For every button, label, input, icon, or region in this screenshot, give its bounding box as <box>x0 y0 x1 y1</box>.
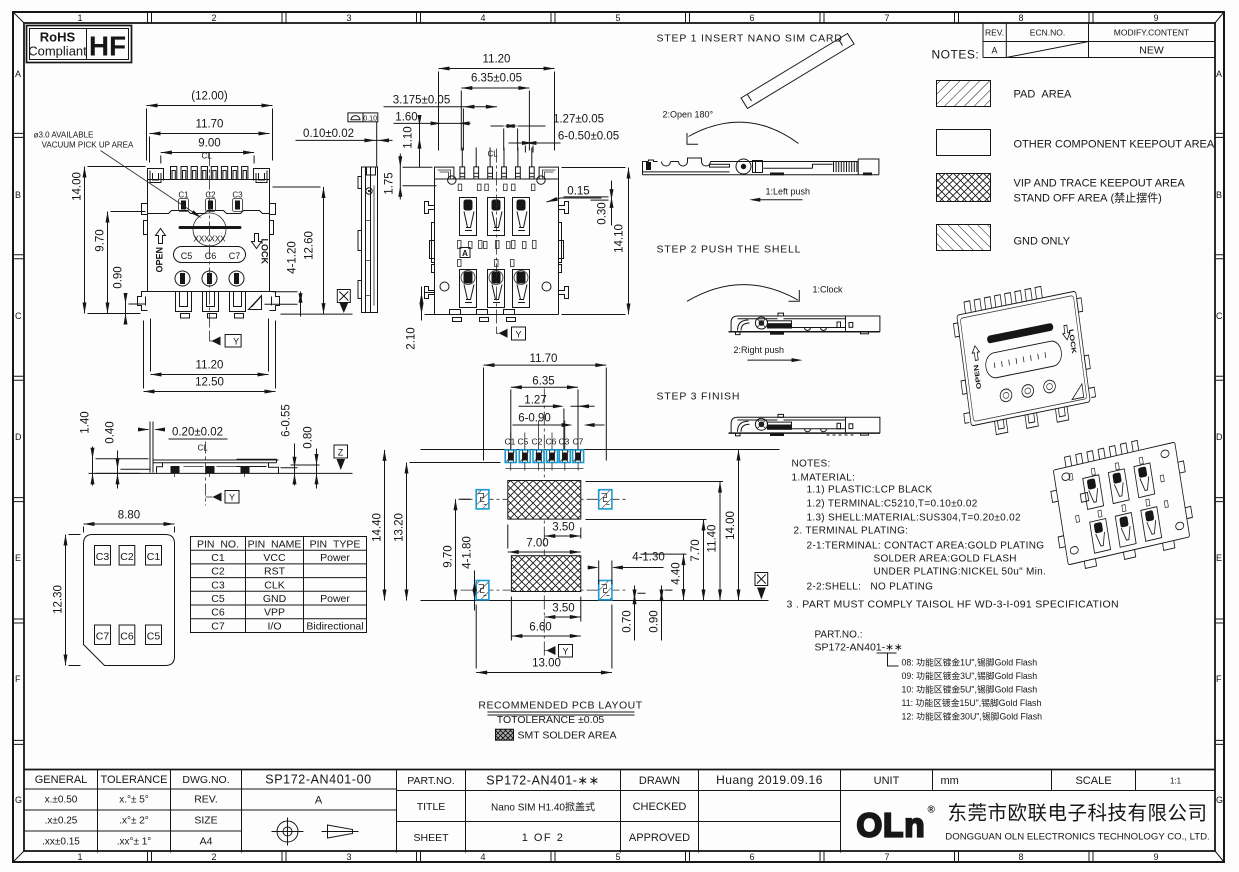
svg-text:.x°± 2°: .x°± 2° <box>119 816 149 827</box>
dim 4-1.20 <box>265 241 303 316</box>
svg-text:14.00: 14.00 <box>725 511 737 540</box>
svg-text:C6: C6 <box>546 437 557 447</box>
dim 6.60 <box>511 597 580 641</box>
corner holes <box>448 176 456 184</box>
svg-text:DWG.NO.: DWG.NO. <box>182 774 229 786</box>
dim 1.60 <box>394 112 471 126</box>
svg-text:4-1.80: 4-1.80 <box>462 536 474 569</box>
svg-text:1 OF 2: 1 OF 2 <box>522 832 565 844</box>
svg-text:C2: C2 <box>120 551 134 563</box>
dim 11.20 <box>151 319 269 377</box>
svg-text:4-1.30: 4-1.30 <box>632 552 665 564</box>
closed connector side view (step2) <box>729 313 880 334</box>
svg-text:A4: A4 <box>200 836 213 848</box>
part number options <box>815 630 1043 722</box>
svg-text:UNDER PLATING:NICKEL 50u" Mi: UNDER PLATING:NICKEL 50u" Min. <box>874 567 1047 578</box>
revision table <box>983 24 1216 58</box>
svg-text:C: C <box>15 311 22 321</box>
svg-text:C5: C5 <box>211 593 225 605</box>
right bottom rail <box>270 292 280 311</box>
shell stiffener bar <box>179 226 242 229</box>
svg-text:2-1:TERMINAL: CONTACT AREA:GO: 2-1:TERMINAL: CONTACT AREA:GOLD PLATING <box>807 541 1045 552</box>
dim 4-1.30 (pcb) <box>588 552 665 585</box>
svg-text:®: ® <box>928 805 936 816</box>
svg-text:DONGGUAN OLN ELECTRONICS TECHN: DONGGUAN OLN ELECTRONICS TECHNOLOGY CO.,… <box>945 832 1209 843</box>
svg-text:0.40: 0.40 <box>105 421 117 443</box>
card pad C6 <box>119 625 135 645</box>
svg-text:Y: Y <box>229 493 235 503</box>
svg-text:SP172-AN401-∗∗: SP172-AN401-∗∗ <box>815 642 903 654</box>
svg-text:C2: C2 <box>532 437 543 447</box>
svg-text:C1: C1 <box>505 437 516 447</box>
svg-text:东莞市欧联电子科技有限公司: 东莞市欧联电子科技有限公司 <box>947 803 1207 825</box>
svg-text:1.27: 1.27 <box>524 395 546 407</box>
svg-text:Nano SIM H1.40掀盖式: Nano SIM H1.40掀盖式 <box>491 801 595 814</box>
lower contact block 3 <box>513 270 530 308</box>
svg-text:09: 功能区镀金3U",锡脚Gold Flash: 09: 功能区镀金3U",锡脚Gold Flash <box>902 670 1038 681</box>
svg-text:6.35: 6.35 <box>532 376 554 388</box>
dim 8.80 <box>84 510 175 533</box>
svg-text:OPEN: OPEN <box>155 247 165 273</box>
gnd pad upper-right (blue) <box>599 490 612 509</box>
card pad C5 <box>146 625 162 645</box>
oval window C5 C6 C7 <box>174 247 246 263</box>
vacuum pickup note <box>34 131 203 220</box>
dim 6-0.55 <box>281 404 298 485</box>
dim 1.75 (pin offset) <box>384 154 437 200</box>
profile left bumps <box>358 177 362 299</box>
svg-text:2: 2 <box>211 852 216 862</box>
dim 0.30 <box>564 181 614 226</box>
lower contact block 2 <box>488 270 505 308</box>
svg-text:VPP: VPP <box>264 607 285 619</box>
svg-text:Y: Y <box>562 647 568 657</box>
svg-text:A: A <box>315 795 323 807</box>
svg-text:ø3.0 AVAILABLE: ø3.0 AVAILABLE <box>34 131 94 140</box>
svg-text:2.10: 2.10 <box>406 327 418 349</box>
dim 9.70 <box>95 212 146 314</box>
svg-text:7.00: 7.00 <box>526 538 548 550</box>
lower contact block 1 <box>460 270 477 308</box>
svg-text:HF: HF <box>89 31 126 62</box>
svg-text:8: 8 <box>1018 13 1023 23</box>
profile top notch <box>367 167 376 175</box>
svg-text:C3: C3 <box>96 551 110 563</box>
svg-text:REV.: REV. <box>985 28 1004 38</box>
svg-text:3.50: 3.50 <box>552 603 574 615</box>
corner triangle vent <box>249 296 262 310</box>
dim 0.40 <box>105 421 151 488</box>
shell wall (0.20 thk) <box>150 422 153 473</box>
gnd pad upper-left (blue) <box>476 490 489 509</box>
dim 12.30 <box>53 535 81 666</box>
svg-text:7: 7 <box>884 13 889 23</box>
dim 0.15 <box>546 186 602 204</box>
flatness control frame <box>348 113 378 122</box>
svg-text:C6: C6 <box>205 251 217 261</box>
svg-text:11.70: 11.70 <box>530 353 558 365</box>
upper contact block 2 <box>488 198 505 236</box>
svg-text:Power: Power <box>320 552 350 564</box>
datum Y (bottom view) <box>497 327 526 341</box>
svg-text:11.40: 11.40 <box>707 525 719 553</box>
dim 6.35 (pcb) <box>511 376 578 450</box>
svg-text:GND ONLY: GND ONLY <box>1014 236 1071 248</box>
projection symbol <box>272 818 359 846</box>
svg-text:C1: C1 <box>147 551 161 563</box>
svg-text:VIP AND TRACE KEEPOUT AREA: VIP AND TRACE KEEPOUT AREA <box>1014 178 1186 190</box>
svg-text:x.±0.50: x.±0.50 <box>45 795 78 806</box>
dim 9.00 <box>161 138 254 164</box>
lower contact circles <box>175 271 244 286</box>
datum Z <box>331 445 353 473</box>
svg-text:PART.NO.: PART.NO. <box>407 775 454 787</box>
svg-text:ECN.NO.: ECN.NO. <box>1030 28 1065 38</box>
profile contacts <box>171 466 250 473</box>
svg-text:14.40: 14.40 <box>372 513 384 542</box>
clock arc arrow (step2) <box>687 285 799 302</box>
svg-text:MODIFY.CONTENT: MODIFY.CONTENT <box>1114 28 1189 38</box>
dim 7.70 (pcb) <box>586 520 707 601</box>
svg-text:0.15: 0.15 <box>567 186 589 198</box>
svg-text:4: 4 <box>480 13 485 23</box>
svg-text:SP172-AN401-∗∗: SP172-AN401-∗∗ <box>486 774 599 788</box>
datum A box <box>460 248 470 258</box>
svg-text:CL: CL <box>198 444 209 453</box>
svg-text:x.°± 5°: x.°± 5° <box>119 795 149 806</box>
dim 0.80 <box>291 426 320 488</box>
svg-text:11: 功能区镀金15U",锡脚Gold Flash: 11: 功能区镀金15U",锡脚Gold Flash <box>902 697 1042 708</box>
card pad C7 <box>95 625 111 645</box>
top solder pins <box>460 148 534 180</box>
svg-text:C: C <box>1216 311 1223 321</box>
svg-text:F: F <box>1216 674 1222 684</box>
body outline <box>435 167 559 314</box>
svg-text:C3: C3 <box>211 580 225 592</box>
svg-text:A: A <box>991 46 997 56</box>
svg-text:08: 功能区镀金1U",锡脚Gold Flash: 08: 功能区镀金1U",锡脚Gold Flash <box>902 657 1038 668</box>
svg-text:Y: Y <box>233 337 239 347</box>
dim 11.70 (pcb) <box>484 353 607 461</box>
svg-text:I/O: I/O <box>267 621 281 633</box>
svg-text:1.3) SHELL:MATERIAL:SUS304,T=: 1.3) SHELL:MATERIAL:SUS304,T=0.20±0.02 <box>807 513 1021 524</box>
datum X (pcb) <box>755 573 768 600</box>
svg-text:SOLDER AREA:GOLD FLASH: SOLDER AREA:GOLD FLASH <box>874 554 1017 565</box>
dim 0.20±0.02 <box>138 427 228 440</box>
gnd pad lower-left (blue) <box>476 581 489 600</box>
svg-text:SCALE: SCALE <box>1075 775 1111 787</box>
svg-text:0.10: 0.10 <box>363 113 377 122</box>
svg-text:2. TERMINAL PLATING:: 2. TERMINAL PLATING: <box>794 526 909 537</box>
svg-text:6: 6 <box>749 852 754 862</box>
card pad C1 <box>146 546 162 566</box>
right side tab <box>270 204 276 235</box>
svg-text:12.60: 12.60 <box>304 231 316 260</box>
svg-text:G: G <box>15 795 22 805</box>
svg-text:12.30: 12.30 <box>53 585 65 614</box>
svg-text:TOLERANCE: TOLERANCE <box>100 774 167 786</box>
dim 0.70 (pcb) <box>622 586 646 641</box>
card pad C2 <box>119 546 135 566</box>
bottom pads <box>450 310 516 322</box>
svg-text:C5: C5 <box>147 631 161 643</box>
dim 14.40 (pcb) <box>372 450 387 601</box>
svg-text:9.00: 9.00 <box>198 138 220 150</box>
svg-text:4-1.20: 4-1.20 <box>287 241 299 274</box>
svg-text:PIN NAME: PIN NAME <box>248 539 302 551</box>
svg-text:VACUUM PICK UP AREA: VACUUM PICK UP AREA <box>42 141 134 150</box>
svg-text:7: 7 <box>884 852 889 862</box>
svg-text:SIZE: SIZE <box>194 815 217 827</box>
dim 14.00 <box>72 167 146 314</box>
svg-text:SHEET: SHEET <box>413 832 449 844</box>
svg-text:E: E <box>1216 553 1222 563</box>
svg-text:E: E <box>15 553 21 563</box>
svg-text:0.80: 0.80 <box>303 426 315 448</box>
dim 13.00 <box>476 605 612 675</box>
svg-text:2-2:SHELL: NO PLATING: 2-2:SHELL: NO PLATING <box>807 582 934 593</box>
legend PAD AREA swatch <box>937 81 991 107</box>
bottom feet <box>176 292 246 319</box>
base seating line <box>89 472 331 474</box>
svg-text:2:Open 180°: 2:Open 180° <box>663 110 714 120</box>
svg-text:3.175±0.05: 3.175±0.05 <box>393 95 450 107</box>
svg-text:1:1: 1:1 <box>1170 777 1182 786</box>
right side ear shapes <box>559 202 569 263</box>
svg-text:RST: RST <box>264 566 286 578</box>
svg-text:14.00: 14.00 <box>72 172 84 201</box>
dim 0.90 <box>113 266 146 324</box>
svg-text:C7: C7 <box>96 631 110 643</box>
svg-text:A: A <box>1216 69 1222 79</box>
svg-text:9.70: 9.70 <box>95 229 107 251</box>
svg-text:STAND OFF AREA (禁止摆件): STAND OFF AREA (禁止摆件) <box>1014 191 1162 205</box>
svg-text:PART.NO.:: PART.NO.: <box>815 630 863 641</box>
svg-text:RoHS: RoHS <box>40 30 76 45</box>
svg-text:PAD AREA: PAD AREA <box>1014 89 1073 101</box>
svg-text:CLK: CLK <box>264 580 284 592</box>
svg-text:1: 1 <box>77 852 82 862</box>
svg-text:1.75: 1.75 <box>384 172 396 194</box>
svg-text:G: G <box>1216 795 1223 805</box>
dim 6.35±0.05 <box>461 73 529 151</box>
dim 14.10 <box>562 168 631 315</box>
svg-text:STEP 3 FINISH: STEP 3 FINISH <box>657 391 741 403</box>
svg-text:3: 3 <box>346 852 351 862</box>
svg-text:0.20±0.02: 0.20±0.02 <box>172 427 223 439</box>
svg-text:UNIT: UNIT <box>874 775 900 787</box>
svg-text:9: 9 <box>1153 13 1158 23</box>
svg-text:1:Clock: 1:Clock <box>813 285 844 295</box>
svg-text:1:Left push: 1:Left push <box>766 187 811 197</box>
svg-text:8.80: 8.80 <box>118 510 140 522</box>
profile outline <box>362 167 378 313</box>
svg-text:C6: C6 <box>211 607 225 619</box>
dim 4.40 (pcb) <box>641 554 687 600</box>
svg-text:2: 2 <box>211 13 216 23</box>
svg-text:7.70: 7.70 <box>690 539 702 561</box>
dim 0.10±0.02 <box>296 122 393 167</box>
profile pivot circle <box>366 188 372 194</box>
svg-text:6-0.50±0.05: 6-0.50±0.05 <box>558 131 619 143</box>
svg-text:mm: mm <box>941 775 959 787</box>
connector body outline <box>148 180 270 292</box>
svg-text:3: 3 <box>346 13 351 23</box>
dim 7.00 <box>508 525 581 555</box>
reference line bottom (datum X line) <box>421 600 769 602</box>
svg-text:Huang 2019.09.16: Huang 2019.09.16 <box>716 773 823 787</box>
dim 2.10 <box>406 287 446 350</box>
svg-text:A: A <box>462 249 468 258</box>
svg-text:5: 5 <box>615 852 620 862</box>
svg-text:11.20: 11.20 <box>196 360 224 372</box>
left bottom rail <box>138 292 148 311</box>
dim (12.00) <box>147 91 273 161</box>
dim 11.40 (pcb) <box>586 482 724 601</box>
svg-text:4.40: 4.40 <box>671 562 683 584</box>
svg-text:1.40: 1.40 <box>80 411 92 433</box>
svg-text:RECOMMENDED PCB LAYOUT: RECOMMENDED PCB LAYOUT <box>478 700 642 712</box>
svg-text:Z: Z <box>338 448 344 458</box>
svg-text:(12.00): (12.00) <box>191 91 228 103</box>
svg-text:D: D <box>1216 432 1223 442</box>
vacuum pickup circle <box>193 213 226 246</box>
top teeth row <box>171 167 248 180</box>
svg-text:B: B <box>15 190 21 200</box>
svg-text:3.50: 3.50 <box>552 522 574 534</box>
svg-text:8: 8 <box>1018 852 1023 862</box>
dim 1.27±0.05 <box>491 114 605 151</box>
pad centerlines horizontal <box>461 498 629 500</box>
pad leader lines up <box>506 421 584 471</box>
scattered slots <box>458 184 537 266</box>
svg-text:6-0.90: 6-0.90 <box>518 413 551 425</box>
left side tab <box>142 204 148 235</box>
legend OTHER COMPONENT KEEPOUT swatch <box>937 130 991 156</box>
svg-text:11.70: 11.70 <box>196 119 224 131</box>
gnd pad lower-right (blue) <box>599 581 612 600</box>
svg-text:VCC: VCC <box>263 552 286 564</box>
svg-text:STEP 2 PUSH THE SHELL: STEP 2 PUSH THE SHELL <box>657 244 802 256</box>
finished connector side view (step3) <box>729 414 880 435</box>
dim 12.60 <box>273 187 326 314</box>
keepout hatch lower <box>511 556 580 592</box>
svg-text:0.90: 0.90 <box>113 266 125 288</box>
svg-text:GENERAL: GENERAL <box>35 774 88 786</box>
svg-text:12: 功能区镀金30U",锡脚Gold Flash: 12: 功能区镀金30U",锡脚Gold Flash <box>902 711 1043 722</box>
svg-text:NOTES:: NOTES: <box>932 48 980 62</box>
svg-text:C7: C7 <box>211 621 225 633</box>
datum Y (side view) <box>206 491 240 504</box>
svg-text:.xx±0.15: .xx±0.15 <box>42 837 80 848</box>
svg-text:TITLE: TITLE <box>417 801 446 813</box>
profile body <box>153 459 279 473</box>
svg-text:C5: C5 <box>181 251 193 261</box>
svg-text:SMT SOLDER AREA: SMT SOLDER AREA <box>518 730 617 742</box>
svg-text:6.35±0.05: 6.35±0.05 <box>471 73 522 85</box>
svg-text:APPROVED: APPROVED <box>629 832 690 844</box>
svg-text:C2: C2 <box>211 566 225 578</box>
svg-text:D: D <box>15 432 22 442</box>
vertical centerline <box>543 389 545 659</box>
svg-text:9.70: 9.70 <box>443 545 455 567</box>
svg-text:1.1) PLASTIC:LCP BLACK: 1.1) PLASTIC:LCP BLACK <box>807 485 933 496</box>
svg-text:2:Right push: 2:Right push <box>734 345 785 355</box>
svg-text:NOTES:: NOTES: <box>792 459 831 470</box>
terminal pads row (blue) <box>505 450 583 463</box>
svg-text:A: A <box>15 69 21 79</box>
svg-text:1.MATERIAL:: 1.MATERIAL: <box>792 473 856 484</box>
svg-text:Compliant: Compliant <box>28 44 87 59</box>
svg-text:GND: GND <box>263 593 287 605</box>
dim 1.40 <box>80 411 149 485</box>
reference line top <box>421 449 780 451</box>
dim 9.70 (pcb) <box>443 499 471 600</box>
svg-text:Bidirectional: Bidirectional <box>306 621 363 633</box>
dim 4-1.80 (pcb) <box>462 536 477 610</box>
legend GND ONLY swatch <box>937 225 991 251</box>
nano sim card stick <box>741 34 854 109</box>
svg-text:1.10: 1.10 <box>403 126 415 148</box>
svg-text:Y: Y <box>515 330 521 340</box>
svg-text:1: 1 <box>77 13 82 23</box>
dim 13.20 (pcb) <box>394 463 501 601</box>
dim 3.175±0.05 <box>384 95 497 151</box>
cover edge line <box>148 211 270 214</box>
svg-text:1.27±0.05: 1.27±0.05 <box>553 114 604 126</box>
right ear <box>254 169 270 198</box>
dim 11.20 (bottom view) <box>439 54 555 151</box>
svg-text:6.60: 6.60 <box>529 622 551 634</box>
svg-text:PIN TYPE: PIN TYPE <box>310 539 361 551</box>
svg-text:13.00: 13.00 <box>532 658 561 670</box>
dim 0.90 (pcb) <box>649 586 673 641</box>
svg-text:.x±0.25: .x±0.25 <box>45 816 78 827</box>
svg-text:REV.: REV. <box>194 794 218 806</box>
left ear <box>148 169 164 198</box>
svg-text:0.70: 0.70 <box>622 610 634 632</box>
svg-text:NEW: NEW <box>1139 45 1164 57</box>
svg-text:1.60: 1.60 <box>395 112 417 124</box>
dim 6-0.50±0.05 <box>509 131 620 153</box>
svg-text:5: 5 <box>615 13 620 23</box>
svg-text:STEP 1 INSERT NANO SIM CARD: STEP 1 INSERT NANO SIM CARD <box>657 33 843 45</box>
svg-text:CHECKED: CHECKED <box>633 801 687 813</box>
RoHS Compliant HF box <box>27 26 132 63</box>
svg-text:C7: C7 <box>229 251 241 261</box>
svg-text:6: 6 <box>749 13 754 23</box>
upper contact block 3 <box>513 198 530 236</box>
keepout hatch upper <box>508 481 581 520</box>
upper contact block 1 <box>460 198 477 236</box>
zone numbers top <box>77 13 1158 23</box>
svg-text:C1: C1 <box>211 552 225 564</box>
svg-text:F: F <box>15 674 21 684</box>
dim 11.70 <box>150 119 270 163</box>
svg-text:TOTOLERANCE ±0.05: TOTOLERANCE ±0.05 <box>497 714 605 726</box>
svg-text:Power: Power <box>320 593 350 605</box>
dim 12.50 <box>144 321 276 394</box>
legend VIP AND TRACE KEEPOUT swatch <box>937 174 991 202</box>
card pad C3 <box>95 546 111 566</box>
svg-text:10: 功能区镀金5U",锡脚Gold Flash: 10: 功能区镀金5U",锡脚Gold Flash <box>902 684 1038 695</box>
dim 3.50 lower <box>544 597 581 622</box>
datum Y (top view) <box>210 331 242 348</box>
svg-text:0.30: 0.30 <box>597 202 609 224</box>
dim 6-0.90 (pcb) <box>513 413 605 428</box>
dim 1.27 (pcb) <box>519 395 595 450</box>
terminal pad labels <box>505 437 584 447</box>
